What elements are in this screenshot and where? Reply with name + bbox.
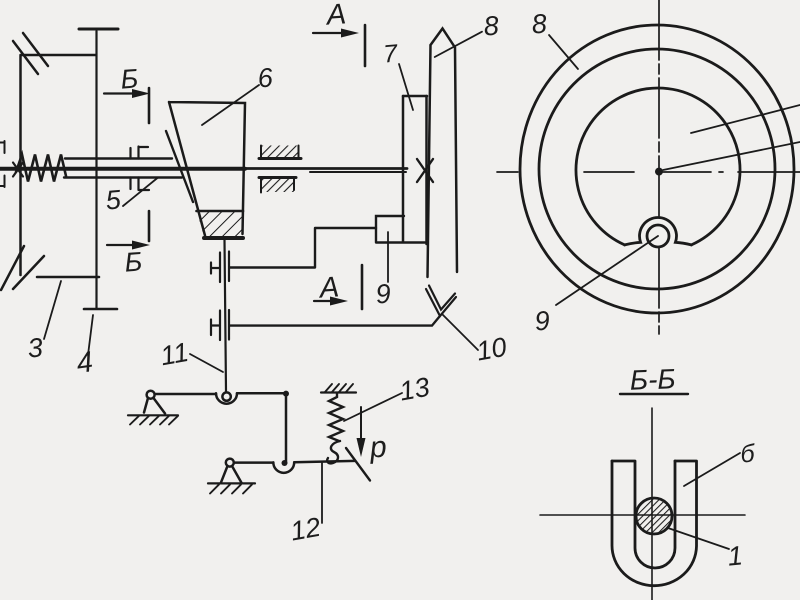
arrow B bottom head <box>132 241 150 250</box>
section B bottom arrow <box>107 244 140 246</box>
bearing upper hatch <box>261 146 299 159</box>
section A bottom arrow <box>314 300 338 302</box>
svg-text:Б: Б <box>124 246 144 277</box>
lever slant 12 <box>346 448 370 481</box>
circle 1 hatched <box>636 498 672 534</box>
shaft lower doubling <box>310 171 406 173</box>
joint cup 2 <box>273 462 294 472</box>
circle view centerline vertical <box>658 0 660 334</box>
hook <box>327 441 340 463</box>
leader 1 <box>668 528 729 549</box>
svg-text:8: 8 <box>482 10 500 41</box>
joint cup 1 <box>216 393 237 404</box>
leader 12 line <box>321 463 323 523</box>
svg-text:A: A <box>317 271 341 304</box>
cone 6 outline <box>169 102 245 236</box>
line 4 top tick <box>79 28 118 31</box>
link bar 1 <box>155 393 216 396</box>
left anchor bracket lower <box>0 176 5 188</box>
arrow B top head <box>132 89 150 98</box>
leader 4 <box>88 315 93 355</box>
frame 3 bottom edge <box>37 276 99 279</box>
link bar 2 <box>234 461 273 464</box>
svg-text:Б-Б: Б-Б <box>629 363 676 396</box>
arrow P <box>360 407 362 438</box>
main shaft <box>0 167 245 171</box>
belt chevron outer <box>426 289 456 316</box>
svg-text:1: 1 <box>726 540 744 571</box>
lever slant at cone <box>166 131 193 202</box>
coupling B ticks <box>211 252 229 283</box>
belt chevron inner <box>429 286 455 310</box>
box 9 <box>376 216 425 243</box>
leader 11 <box>190 354 223 372</box>
spring end cross <box>13 163 23 177</box>
pivot 2 <box>226 459 234 467</box>
arrow A top head <box>341 29 359 38</box>
coupling C ticks <box>211 310 229 340</box>
bearing lower hatch <box>261 178 294 192</box>
spring 13 <box>329 393 343 441</box>
svg-text:Б: Б <box>120 63 140 94</box>
leader 8 circle <box>549 35 578 69</box>
sleeve upper line <box>65 157 172 159</box>
belt divider edge <box>425 96 428 244</box>
leader 10 <box>442 314 478 350</box>
svg-text:13: 13 <box>397 372 432 407</box>
svg-text:9: 9 <box>374 278 392 309</box>
svg-text:11: 11 <box>158 337 191 371</box>
fork outer <box>612 461 697 586</box>
leader right upper <box>691 105 800 133</box>
vertical link <box>285 394 288 463</box>
leader 7 <box>399 64 413 110</box>
svg-text:p: p <box>368 430 388 464</box>
vertical shaft from cone <box>225 240 227 391</box>
circle view centerline horizontal <box>497 171 800 173</box>
arrow A bottom head <box>330 297 348 306</box>
svg-text:10: 10 <box>474 332 509 367</box>
small circle 9 <box>647 225 669 247</box>
leader 9 mech <box>387 232 389 282</box>
node dot 2 <box>282 460 288 466</box>
section title underline <box>620 393 688 395</box>
belt band 8 outline <box>428 29 458 278</box>
leader 9 circle <box>556 236 658 305</box>
leader 5 <box>123 178 158 207</box>
belt band 7 left edge <box>402 96 405 242</box>
bearing lower top line <box>259 176 296 179</box>
spring on shaft <box>16 155 66 182</box>
leader 8 belt <box>435 32 482 57</box>
fork inner <box>635 461 675 568</box>
notch wrap around small circle <box>625 218 692 245</box>
center dot <box>655 168 663 176</box>
cone 6 hatch band <box>197 210 244 213</box>
link bar 1b <box>237 392 286 395</box>
bearing upper base <box>259 157 301 160</box>
sleeve lower line <box>64 176 182 178</box>
frame 3 top edge <box>21 54 97 57</box>
leader right lower <box>663 142 800 170</box>
BB centerline horizontal <box>540 514 745 516</box>
outer circle <box>520 25 794 313</box>
svg-text:9: 9 <box>533 305 551 336</box>
fork arm caps <box>612 460 697 463</box>
coupling claw lower ticks <box>131 178 150 191</box>
node dot <box>283 391 289 397</box>
cone 6 bottom thick edge <box>204 236 243 240</box>
line 4 vertical <box>95 31 97 308</box>
inner circle with gap <box>576 88 740 245</box>
coupling C output line to belt <box>230 317 440 326</box>
middle circle <box>539 49 775 289</box>
leader 6 <box>202 85 259 125</box>
leader 13 <box>344 393 402 421</box>
section B top arrow <box>104 92 140 94</box>
link bar 2b <box>294 461 355 462</box>
pivot 1 <box>147 391 155 399</box>
break slashes bottom-left <box>1 246 44 290</box>
svg-text:A: A <box>324 0 348 32</box>
leader b <box>684 453 740 486</box>
leader 3 <box>44 281 61 339</box>
break slashes top-left <box>13 33 48 74</box>
coupling claw upper ticks <box>131 147 149 159</box>
svg-text:12: 12 <box>288 512 323 547</box>
X mark on belt <box>417 159 433 182</box>
BB centerline vertical <box>651 408 653 600</box>
spring 13 ceiling <box>321 391 356 393</box>
coupling B output line <box>230 228 377 268</box>
left anchor bracket upper <box>0 141 5 153</box>
section A top arrow <box>313 32 348 34</box>
line 4 bottom tick <box>84 308 117 311</box>
frame 3 left vertical <box>19 56 22 275</box>
svg-text:3: 3 <box>26 332 44 363</box>
belt band 7 top edge <box>403 95 427 98</box>
svg-text:8: 8 <box>530 8 548 39</box>
